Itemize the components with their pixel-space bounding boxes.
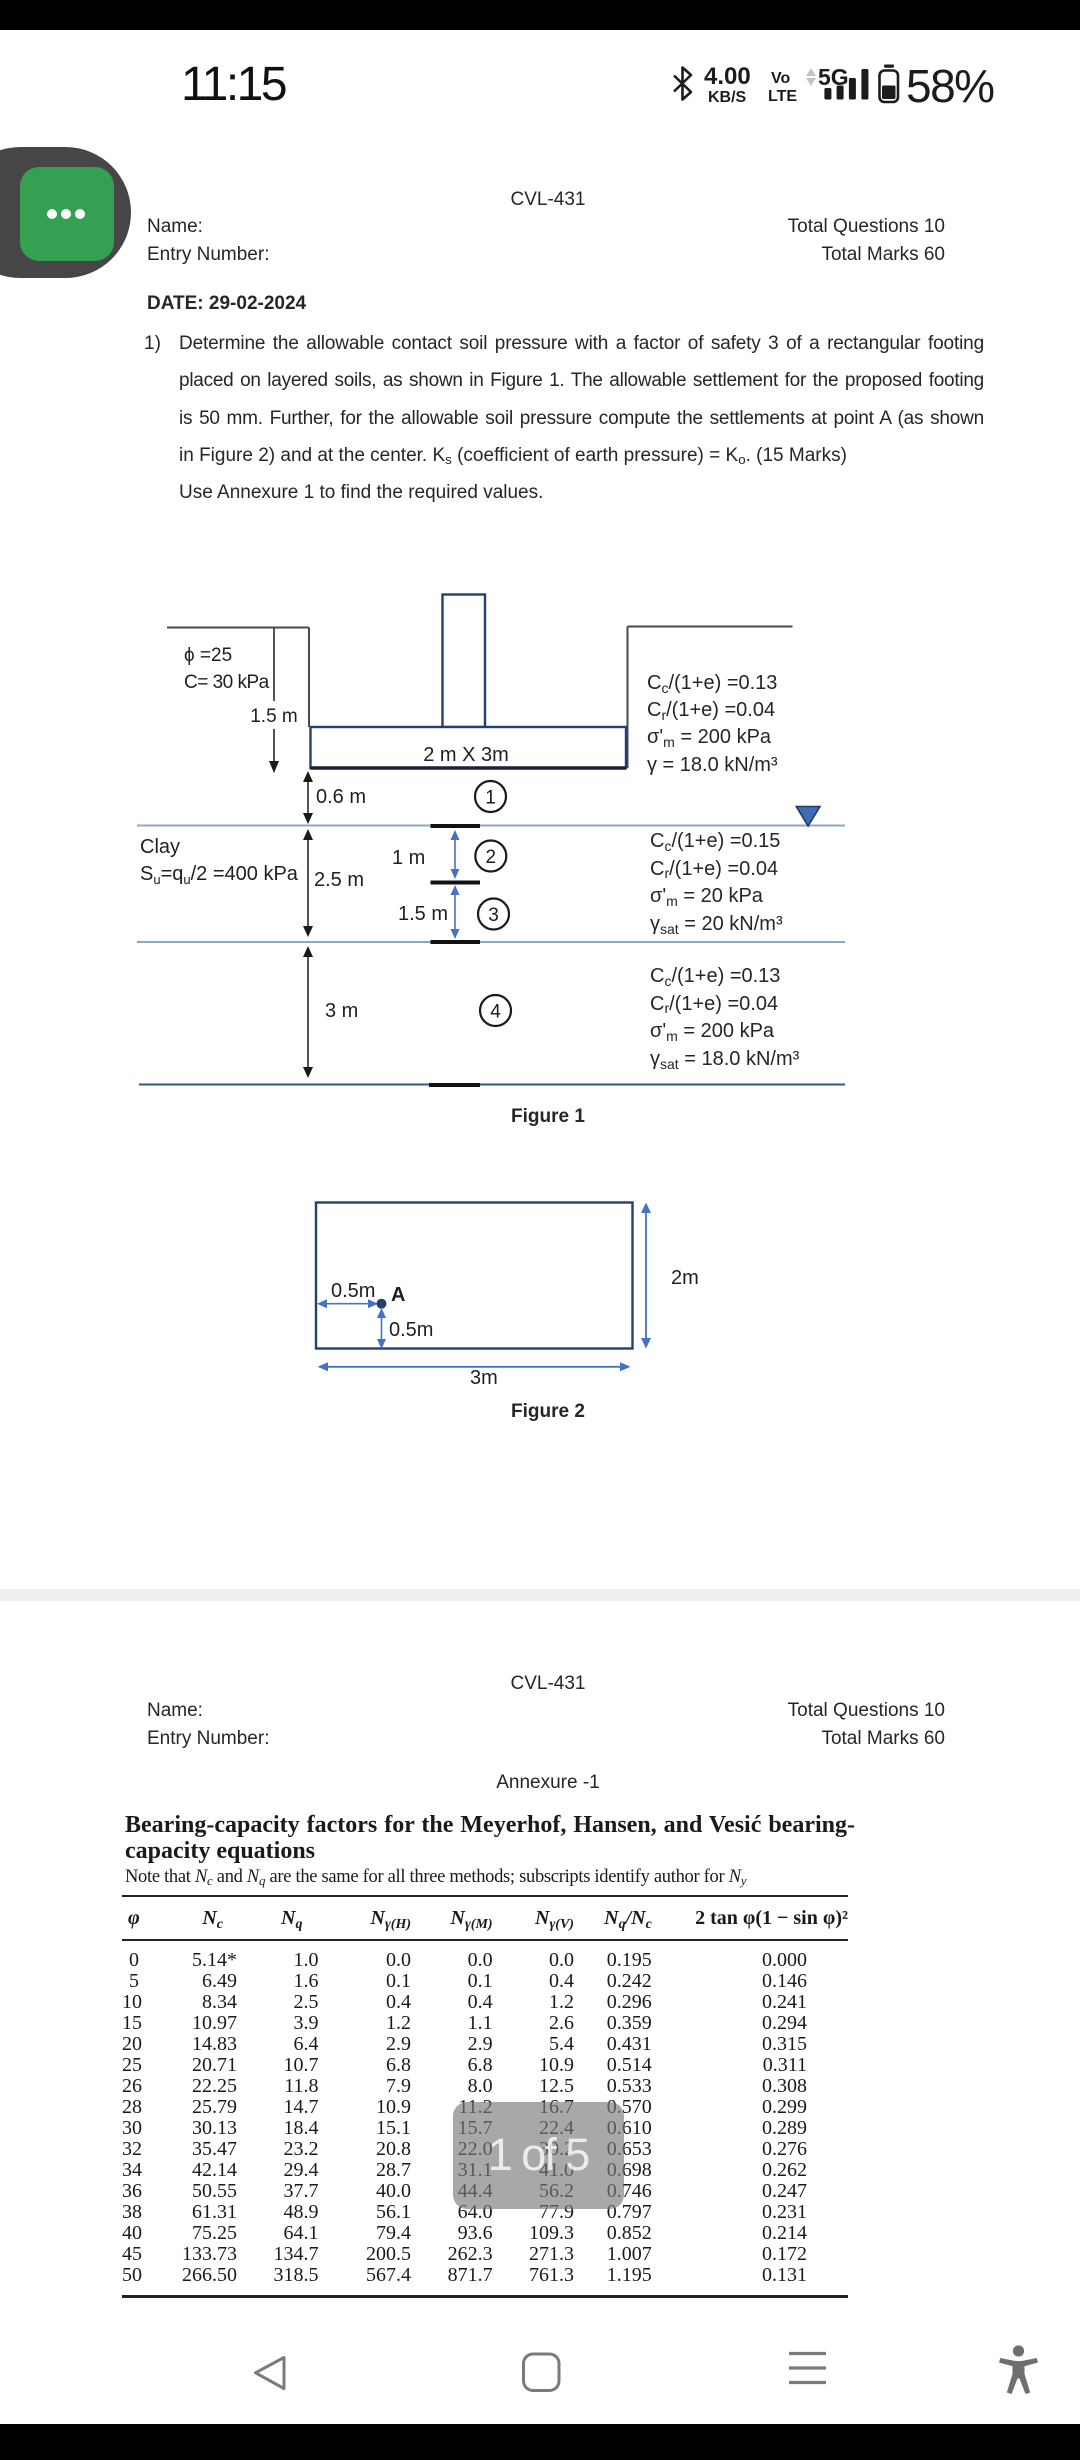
page separator — [0, 1589, 1080, 1601]
dim arrow 3m bottom — [320, 1366, 627, 1368]
FIGURE 2 — [290, 1190, 710, 1390]
dim arrow 0.5m vertical — [381, 1311, 383, 1346]
svg-text:ϕ =25: ϕ =25 — [184, 645, 232, 666]
footing plan rectangle — [316, 1203, 633, 1349]
signal bars — [824, 88, 831, 100]
page 2 header — [8, 1672, 1080, 1696]
svg-text:Vo: Vo — [771, 70, 790, 87]
svg-text:C= 30 kPa: C= 30 kPa — [184, 672, 270, 693]
page overlay 1 of 5 — [453, 2102, 624, 2209]
footing — [311, 727, 627, 768]
node circle 4 — [480, 995, 511, 1026]
node circle 2 — [475, 841, 506, 872]
water table line 1 — [137, 825, 845, 827]
accessibility icon — [999, 2345, 1038, 2394]
blue dim arrow 1m — [454, 833, 456, 876]
nav home button — [524, 2354, 560, 2391]
column pier — [443, 595, 486, 728]
annexure table — [122, 1895, 848, 2286]
svg-text:1.5 m: 1.5 m — [398, 903, 448, 925]
page 1 header — [8, 188, 1080, 212]
top black bar — [0, 0, 1080, 30]
ground line left — [167, 627, 309, 629]
dim line 1.5m upper segment — [273, 628, 275, 701]
point A — [377, 1299, 387, 1309]
svg-text:A: A — [391, 1284, 405, 1306]
layer line 2 — [137, 941, 845, 943]
chat head green square — [20, 167, 114, 261]
tick mark 2 — [431, 881, 481, 885]
svg-text:1: 1 — [485, 788, 496, 809]
status bar clock — [181, 61, 285, 109]
data activity arrows — [806, 68, 816, 76]
chat head pill — [0, 147, 131, 278]
footing bottom thick edge — [311, 766, 627, 769]
svg-text:2 m X 3m: 2 m X 3m — [423, 744, 509, 766]
svg-text:4.00: 4.00 — [704, 63, 751, 90]
bottom layer line — [139, 1084, 845, 1086]
annotation block 3 — [650, 963, 799, 1074]
svg-text:Su=qu/2 =400 kPa: Su=qu/2 =400 kPa — [140, 863, 299, 887]
annexure title — [125, 1813, 855, 1864]
Figure 1 caption — [448, 1105, 648, 1129]
dim arrow 2.5m — [307, 832, 309, 934]
svg-text:3 m: 3 m — [325, 1000, 358, 1022]
battery icon — [880, 71, 899, 103]
svg-text:2m: 2m — [671, 1267, 699, 1289]
svg-text:3: 3 — [488, 905, 499, 926]
svg-text:1.5 m: 1.5 m — [250, 706, 298, 727]
svg-text:2.5 m: 2.5 m — [314, 869, 364, 891]
tick mark 3 — [431, 940, 481, 944]
nav recents button — [789, 2354, 826, 2383]
nav back button — [256, 2358, 285, 2389]
water table triangle — [796, 807, 820, 827]
excavation left wall — [308, 628, 310, 728]
svg-text:4: 4 — [490, 1002, 501, 1023]
svg-text:5G: 5G — [818, 64, 849, 90]
bottom black bar — [0, 2424, 1080, 2460]
dim arrow 0.5m horizontal — [319, 1303, 374, 1305]
tick mark 1 — [431, 824, 481, 828]
chat head dots — [47, 209, 57, 219]
dim arrow 2m right side — [645, 1205, 647, 1346]
svg-text:Clay: Clay — [140, 836, 180, 858]
question paragraph — [144, 332, 161, 356]
FIGURE 1 — [130, 580, 860, 1100]
svg-text:0.5m: 0.5m — [331, 1280, 375, 1302]
dim arrow 0.6m — [307, 774, 309, 821]
excavation right wall — [627, 627, 629, 769]
bluetooth icon — [674, 68, 691, 100]
svg-text:KB/S: KB/S — [708, 89, 747, 106]
annotation block 1 — [647, 670, 778, 779]
annotation block 2 — [650, 828, 783, 939]
node circle 3 — [478, 899, 509, 930]
svg-text:LTE: LTE — [768, 88, 797, 105]
status bar right icons — [660, 52, 1010, 116]
table bottom rule — [122, 2295, 848, 2298]
Figure 2 caption — [448, 1400, 648, 1424]
dim arrow 3m — [307, 949, 309, 1075]
svg-text:3m: 3m — [470, 1367, 498, 1389]
blue dim arrow 1.5m — [454, 888, 456, 936]
dim line 1.5m lower segment + arrowhead — [273, 729, 275, 761]
navigation bar — [0, 2330, 1080, 2424]
tick mark 4 — [429, 1083, 480, 1087]
svg-text:1 m: 1 m — [392, 847, 425, 869]
svg-text:0.6 m: 0.6 m — [316, 786, 366, 808]
node circle 1 — [475, 781, 506, 812]
svg-text:0.5m: 0.5m — [389, 1319, 433, 1341]
svg-text:2: 2 — [486, 847, 497, 868]
ground line right — [628, 626, 793, 628]
annexure note — [125, 1867, 746, 1888]
svg-text:58%: 58% — [906, 60, 994, 112]
